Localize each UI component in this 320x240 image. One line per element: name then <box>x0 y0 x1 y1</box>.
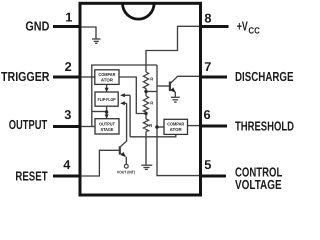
svg-text:+V: +V <box>237 18 248 33</box>
svg-text:8: 8 <box>204 10 211 25</box>
svg-text:7: 7 <box>204 59 211 74</box>
svg-text:R: R <box>150 101 153 106</box>
svg-text:3: 3 <box>64 107 71 122</box>
svg-text:V​OUT (INT): V​OUT (INT) <box>117 170 136 175</box>
svg-text:CC: CC <box>248 25 260 35</box>
svg-text:2: 2 <box>65 59 72 74</box>
svg-text:STAGE: STAGE <box>101 127 114 132</box>
svg-text:OUTPUT: OUTPUT <box>9 117 47 132</box>
svg-text:R: R <box>149 123 152 128</box>
svg-text:GND: GND <box>25 18 49 33</box>
svg-text:ATOR: ATOR <box>101 77 114 82</box>
svg-text:4: 4 <box>63 157 71 172</box>
svg-text:COMPAR: COMPAR <box>98 72 116 77</box>
svg-text:TRIGGER: TRIGGER <box>1 69 50 84</box>
svg-text:RESET: RESET <box>15 168 47 183</box>
svg-text:OUTPUT: OUTPUT <box>99 121 115 126</box>
svg-text:5: 5 <box>204 157 211 172</box>
svg-text:1: 1 <box>65 9 72 24</box>
svg-text:THRESHOLD: THRESHOLD <box>235 119 294 134</box>
svg-text:R: R <box>150 76 153 81</box>
svg-text:ATOR: ATOR <box>170 127 183 132</box>
svg-text:DISCHARGE: DISCHARGE <box>235 69 294 84</box>
svg-text:6: 6 <box>204 107 211 122</box>
svg-text:FLIP-FLOP: FLIP-FLOP <box>98 97 116 102</box>
svg-text:VOLTAGE: VOLTAGE <box>235 177 282 192</box>
svg-text:COMPAR: COMPAR <box>167 121 185 126</box>
